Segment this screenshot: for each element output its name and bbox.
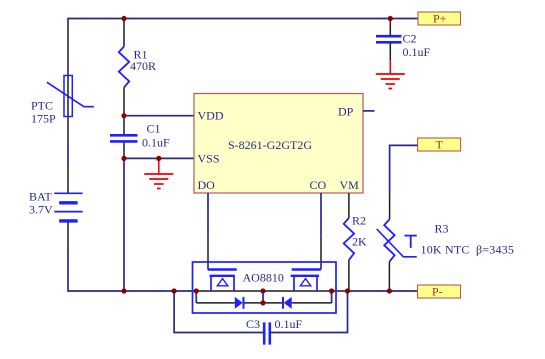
wire VDD [124,115,194,117]
wire CO to gate [320,193,322,270]
wire DO to gate [207,193,209,270]
svg-text:0.1uF: 0.1uF [403,45,431,59]
wire VM pin stub [348,193,350,218]
svg-text:P-: P- [432,285,443,299]
MOSFET Q-A (left half of AO8810) [208,270,237,292]
svg-text:2K: 2K [352,235,367,249]
svg-text:C2: C2 [403,32,417,46]
wire battery to bottom rail [68,250,124,291]
wire bottom rail left [124,290,196,292]
resistor R1 470R [119,19,156,116]
svg-text:0.1uF: 0.1uF [142,136,170,150]
IC U1 S-8261-G2GT2G [194,94,363,194]
capacitor C3 0.1uF with loop wiring [174,291,347,345]
diode D-B (right body diode) [283,297,292,309]
ground at VSS (red) [144,158,173,188]
pin DP stub [363,110,375,112]
diode D-A (left body diode) [235,297,244,309]
svg-text:P+: P+ [433,12,447,26]
wire battery top pin (black) [67,169,69,193]
wire top rail [68,18,418,20]
terminal P+ [418,12,461,26]
svg-text:VSS: VSS [198,152,220,166]
terminal P- [418,285,461,299]
wire PTC to battery (blue) [67,144,69,169]
ground at C2 (red) [376,60,405,89]
PTC thermistor PTC 175P [31,76,94,126]
svg-text:T: T [436,138,444,152]
dual MOSFET U2 AO8810 box [193,262,337,313]
wire VSS [124,157,194,159]
wire T to R3 [390,145,418,219]
svg-text:R3: R3 [435,222,449,236]
svg-text:AO8810: AO8810 [243,271,284,285]
svg-text:S-8261-G2GT2G: S-8261-G2GT2G [228,138,312,152]
svg-text:DP: DP [338,104,354,118]
wire body-diode bus [196,291,331,303]
wire left rail upper elbow [67,18,69,23]
svg-text:CO: CO [310,178,327,192]
wire bottom rail middle (black) [196,290,348,292]
svg-text:0.1uF: 0.1uF [275,317,303,331]
resistor R2 2K [344,214,367,292]
svg-text:C3: C3 [246,317,260,331]
battery BAT 3.7V [29,190,83,221]
thermistor R3 10K NTC [377,219,514,291]
svg-text:PTC: PTC [31,99,53,113]
svg-text:10K NTC β=3435: 10K NTC β=3435 [421,243,515,257]
wire left rail black segment to PTC [67,23,69,144]
wire bottom rail right [348,290,418,292]
svg-text:DO: DO [198,178,216,192]
wire battery bottom pin (black) [67,221,69,250]
svg-text:175P: 175P [31,112,56,126]
terminal T [418,138,461,152]
svg-text:BAT: BAT [29,190,52,204]
capacitor C2 0.1uF [376,19,431,61]
capacitor C1 0.1uF [110,116,170,159]
MOSFET Q-B (right half of AO8810) [291,270,321,292]
svg-text:C1: C1 [147,122,161,136]
svg-text:R2: R2 [352,214,366,228]
wire C1 down to bottom rail [123,158,125,291]
svg-text:470R: 470R [130,59,156,73]
svg-text:VDD: VDD [198,109,224,123]
svg-text:3.7V: 3.7V [29,203,53,217]
svg-text:VM: VM [340,178,360,192]
